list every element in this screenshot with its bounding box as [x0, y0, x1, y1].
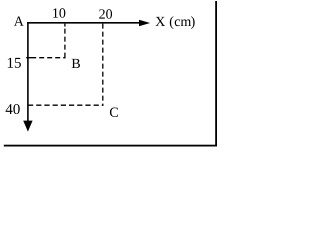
dashed horizontal line depth 15 [26, 57, 65, 59]
Y axis (downward) line [27, 22, 29, 122]
label C [110, 108, 118, 117]
label 40 [6, 104, 20, 114]
dashed horizontal line depth 40 [28, 104, 103, 106]
label 10 [53, 8, 65, 17]
axis label close paren [191, 16, 195, 29]
dashed vertical line x=10cm [64, 24, 66, 59]
shadow border right [215, 1, 217, 147]
label B [72, 59, 80, 68]
axis label X [156, 17, 166, 26]
dashed vertical line x=20cm [102, 24, 104, 106]
X axis arrowhead [139, 20, 150, 27]
shadow border bottom [4, 145, 217, 147]
label 15 [8, 58, 21, 68]
axis label open paren [170, 16, 174, 29]
axis label cm [175, 19, 191, 26]
Y axis arrowhead (down) [23, 121, 32, 132]
label A (origin) [14, 17, 24, 26]
label 20 [99, 9, 112, 18]
X axis line [27, 22, 140, 24]
